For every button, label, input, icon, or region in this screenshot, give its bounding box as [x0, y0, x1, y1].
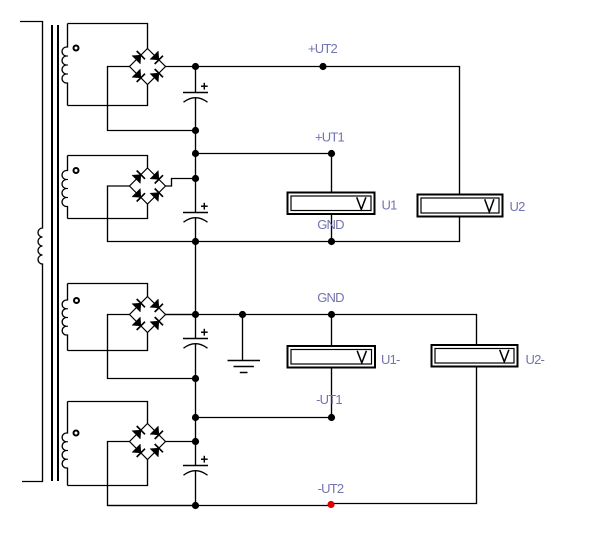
node -UT2 bus — [192, 502, 199, 509]
wire B3 minus return — [108, 315, 196, 379]
node B4 output — [192, 438, 199, 445]
svg-text:-UT1: -UT1 — [316, 392, 342, 407]
node GND bus upper — [192, 238, 199, 245]
W3 polarity dot — [74, 298, 79, 303]
node C1 bottom — [192, 127, 199, 134]
W4 polarity dot — [74, 431, 79, 436]
voltmeter U1- — [288, 346, 376, 368]
wire GND rail lower — [166, 315, 477, 345]
svg-text:U1: U1 — [382, 198, 398, 213]
node -UT1 — [328, 414, 335, 421]
wire B3 right to bus — [166, 314, 196, 316]
wire W3 bottom to B3 bottom — [68, 333, 148, 351]
node GND U1- — [328, 311, 335, 318]
svg-text:+UT2: +UT2 — [308, 41, 338, 56]
wire U1- bottom to -UT1 — [331, 369, 333, 418]
node GND U1 — [328, 238, 335, 245]
wire B2 right to bus (step) — [166, 179, 196, 187]
wire U1 bottom to GND — [331, 215, 333, 242]
svg-text:U2: U2 — [510, 199, 526, 214]
wire -UT2 rail right — [331, 368, 477, 504]
wire B4 minus return — [108, 442, 196, 506]
node +UT2 bus — [192, 63, 199, 70]
transformer core — [52, 25, 58, 481]
node ground tap — [239, 311, 246, 318]
voltmeter U1 — [288, 193, 375, 215]
W1 polarity dot — [74, 46, 79, 51]
wire W4 bottom to B4 bottom — [68, 460, 148, 486]
capacitor C4 — [183, 456, 208, 475]
wire W1 bottom to B1 bottom — [68, 85, 148, 106]
transformer secondary winding W4 — [62, 402, 67, 486]
ground symbol — [228, 315, 261, 373]
transformer primary winding L1 — [20, 22, 43, 482]
capacitor C3 — [183, 329, 208, 348]
wire bus C3 to C4 — [195, 344, 197, 466]
wire +UT1 rail — [196, 154, 332, 192]
wire bus +UT2 to C1 — [195, 67, 197, 93]
svg-text:GND: GND — [317, 217, 344, 232]
wire U1- top — [331, 315, 333, 346]
wire bus C4 to -UT2 — [195, 471, 197, 506]
voltmeter U2 — [418, 195, 503, 217]
wire B1 minus return — [108, 67, 196, 131]
wire B1 right to bus — [166, 66, 196, 68]
wire W4 top to B4 top — [68, 402, 148, 424]
node +UT2 label dot — [319, 63, 326, 70]
wire +UT2 rail — [196, 67, 460, 194]
node GND bus lower — [192, 311, 199, 318]
node -UT2 (red) — [327, 501, 334, 508]
transformer secondary winding W3 — [62, 284, 67, 351]
wire B2 minus return / GND rail left — [108, 186, 196, 242]
transformer secondary winding W1 — [62, 24, 68, 106]
wire -UT1 rail — [196, 417, 332, 419]
wire W2 top to B2 top — [68, 156, 148, 169]
node -UT1 bus — [192, 414, 199, 421]
voltmeter U2- — [432, 345, 518, 367]
capacitor C1 — [183, 83, 208, 102]
bridge rectifier B1 — [130, 49, 166, 85]
wire B4 right to bus — [166, 441, 196, 443]
transformer secondary winding W2 — [62, 156, 68, 219]
node B2 output — [192, 175, 199, 182]
capacitor C2 — [183, 203, 208, 222]
wire W3 top to B3 top — [68, 284, 148, 297]
W2 polarity dot — [74, 168, 79, 173]
node +UT1 — [328, 150, 335, 157]
wire GND rail upper — [196, 218, 460, 242]
svg-text:+UT1: +UT1 — [315, 130, 345, 145]
wire bus C2 to C3 — [195, 218, 197, 339]
svg-text:U2-: U2- — [526, 352, 545, 367]
bridge rectifier B2 — [130, 168, 166, 204]
svg-text:GND: GND — [317, 290, 344, 305]
bridge rectifier B4 — [130, 424, 166, 460]
wire -UT2 rail left — [108, 505, 332, 507]
svg-text:U1-: U1- — [381, 352, 400, 367]
wire W1 top to B1 top — [68, 24, 148, 49]
bridge rectifier B3 — [130, 297, 166, 333]
wire W2 bottom to B2 bottom — [68, 204, 148, 219]
node +UT1 bus — [192, 150, 199, 157]
node C3 bottom — [192, 375, 199, 382]
wire bus C1 to C2 — [195, 98, 197, 213]
svg-text:-UT2: -UT2 — [318, 481, 344, 496]
